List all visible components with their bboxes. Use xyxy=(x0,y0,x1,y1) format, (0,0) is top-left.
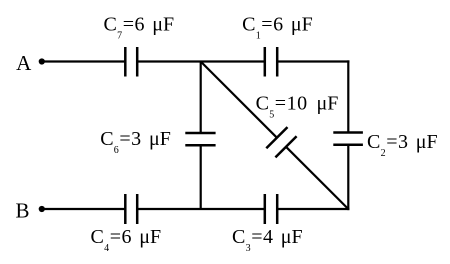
svg-text:B: B xyxy=(16,198,30,222)
wire C3 to bottom-right corner xyxy=(277,208,349,210)
wire middle vertical lower xyxy=(200,145,202,209)
svg-text:C6=3μF: C6=3μF xyxy=(100,128,171,156)
capacitor C5 xyxy=(266,127,296,157)
wire diagonal lower (C5 to bottom-right corner) xyxy=(286,147,348,209)
svg-text:C1=6μF: C1=6μF xyxy=(242,13,313,41)
capacitor C4 xyxy=(125,194,137,224)
node B terminal dot xyxy=(39,206,45,212)
wire right side lower xyxy=(347,145,349,210)
svg-text:A: A xyxy=(16,51,32,75)
wire C1 to top-right corner xyxy=(277,60,349,62)
svg-text:C3=4μF: C3=4μF xyxy=(232,226,303,254)
node A terminal dot xyxy=(39,58,45,64)
wire diagonal upper (node to C5) xyxy=(201,62,277,138)
wire A to C7 xyxy=(42,60,126,62)
svg-text:C5=10μF: C5=10μF xyxy=(256,93,339,121)
wire B to C4 xyxy=(42,208,126,210)
wire middle vertical upper xyxy=(200,62,202,134)
capacitor C7 xyxy=(125,47,137,77)
capacitor C2 xyxy=(333,133,363,145)
svg-text:C4=6μF: C4=6μF xyxy=(91,226,162,254)
wire right side upper xyxy=(347,60,349,132)
wire C4 to C3 through bottom node xyxy=(137,208,265,210)
capacitor C3 xyxy=(265,194,277,224)
svg-text:C7=6μF: C7=6μF xyxy=(104,14,175,42)
svg-text:C2=3μF: C2=3μF xyxy=(367,131,438,159)
capacitor C1 xyxy=(265,47,277,77)
capacitor C6 xyxy=(185,133,215,145)
wire C7 to C1 through top node xyxy=(137,60,265,62)
